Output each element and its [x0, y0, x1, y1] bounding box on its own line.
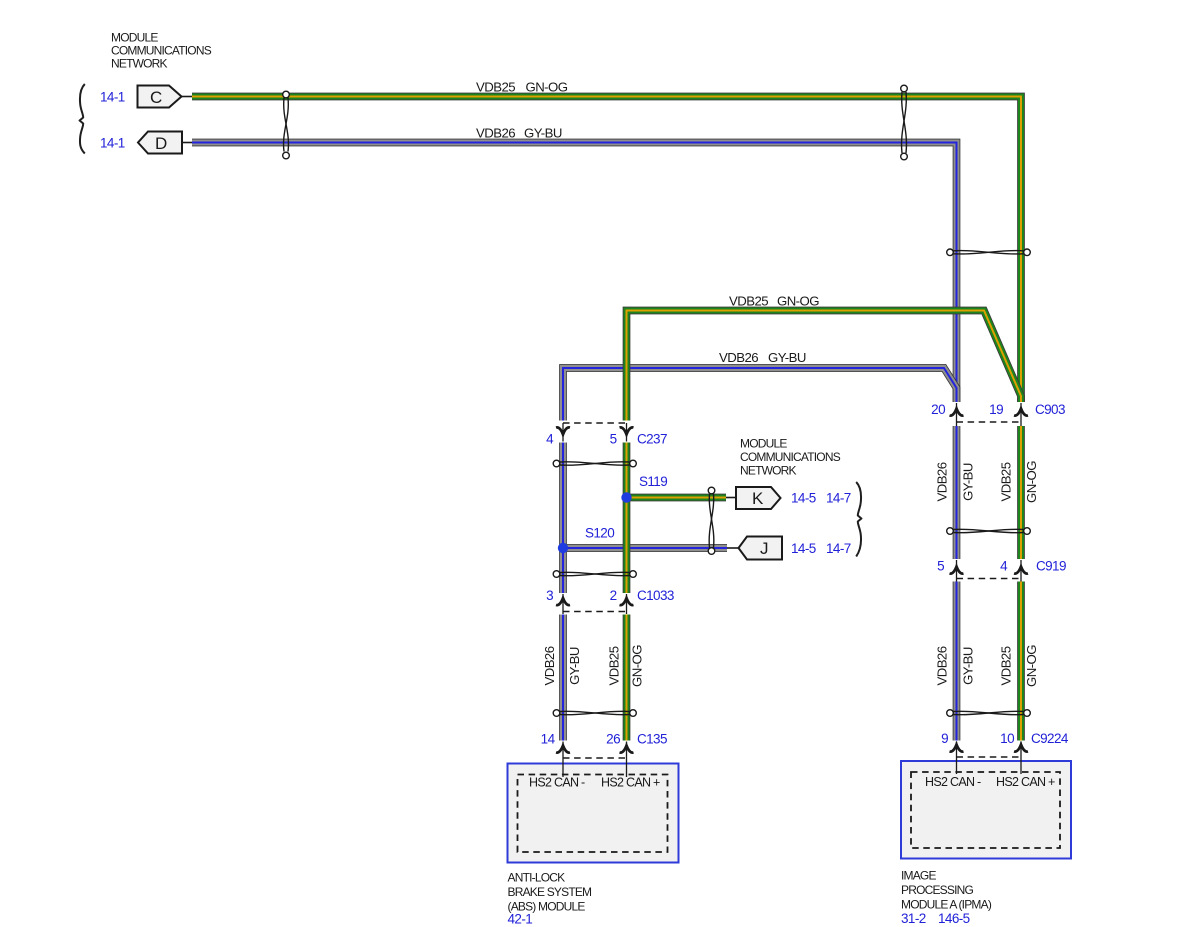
pin 4 of C919 (arrow up)	[1014, 560, 1028, 582]
svg-text:GN-OG: GN-OG	[777, 294, 819, 309]
twisted pair symbol (horizontal) right branch above C919	[947, 528, 1031, 535]
wire label VDB25 GN-OG (second run)	[729, 294, 819, 309]
svg-text:D: D	[155, 134, 167, 153]
wire label VDB26 GY-BU (second run)	[719, 350, 806, 365]
svg-text:4: 4	[1000, 559, 1008, 574]
wire VDB25 GN-OG top run: from C connector right then down to C903 pin 19	[192, 97, 1021, 403]
svg-text:BRAKE SYSTEM: BRAKE SYSTEM	[508, 885, 593, 899]
wire VDB25 GN-OG left branch: C237 pin 5 to C1033 pin 2	[623, 443, 631, 594]
connector D lead wire	[182, 142, 192, 144]
wire VDB26 GY-BU left branch: C237 pin 4 to C1033 pin 3	[559, 443, 567, 594]
svg-text:GY-BU: GY-BU	[768, 350, 806, 365]
brace left of C/D connectors	[80, 84, 85, 154]
svg-text:HS2 CAN -: HS2 CAN -	[529, 776, 585, 790]
svg-text:14: 14	[541, 732, 556, 747]
svg-text:NETWORK: NETWORK	[111, 57, 168, 71]
twisted pair symbol (vertical) next to K and J connectors	[708, 487, 715, 554]
pin 5 of C237 (arrow down)	[620, 423, 634, 442]
svg-text:VDB26: VDB26	[542, 646, 557, 685]
dashed connector line C237	[563, 422, 627, 424]
svg-text:C1033: C1033	[637, 588, 674, 603]
module name ANTI-LOCK BRAKE SYSTEM (ABS) MODULE	[508, 871, 593, 914]
connector J (to sheets 14-5 / 14-7)	[739, 537, 783, 560]
pin 20 of C903 (arrow up)	[950, 403, 964, 426]
wire VDB25 GN-OG right branch: C903 pin 19 to C919 pin 4	[1017, 426, 1025, 559]
svg-text:VDB26: VDB26	[934, 462, 949, 501]
svg-text:S119: S119	[639, 474, 667, 489]
svg-text:K: K	[752, 489, 764, 508]
svg-text:MODULE: MODULE	[111, 31, 158, 45]
svg-text:HS2 CAN +: HS2 CAN +	[996, 775, 1055, 789]
twisted pair symbol (horizontal) left branch above S119	[553, 460, 636, 467]
svg-text:C919: C919	[1036, 559, 1066, 574]
module box IMAGE PROCESSING MODULE A (IPMA)	[901, 761, 1071, 859]
svg-text:2: 2	[610, 588, 617, 603]
module box ANTI-LOCK BRAKE SYSTEM (ABS) MODULE	[508, 764, 679, 863]
svg-text:14-7: 14-7	[826, 541, 851, 556]
wire VDB25 GN-OG right branch: C919 pin 4 to C9224 pin 10	[1017, 582, 1025, 741]
wire VDB25 GN-OG left branch: C1033 pin 2 to C135 pin 26	[623, 615, 631, 741]
dashed connector line C9224	[957, 756, 1022, 758]
svg-text:10: 10	[1000, 731, 1014, 746]
svg-text:14-5: 14-5	[791, 541, 816, 556]
svg-text:VDB25: VDB25	[729, 294, 768, 309]
dashed connector line C903	[957, 421, 1022, 423]
svg-text:C135: C135	[637, 732, 667, 747]
svg-text:3: 3	[546, 588, 553, 603]
connector D (in-line to sheet 14-1)	[138, 132, 182, 154]
twisted pair symbol (horizontal) left branch below S120	[553, 571, 636, 578]
svg-text:31-2: 31-2	[901, 911, 926, 926]
svg-text:146-5: 146-5	[938, 911, 970, 926]
svg-text:C903: C903	[1035, 402, 1065, 417]
twisted pair symbol (horizontal) right branch above C9224	[947, 710, 1031, 717]
svg-text:NETWORK: NETWORK	[740, 464, 797, 478]
svg-text:42-1: 42-1	[508, 912, 533, 927]
svg-text:S120: S120	[585, 526, 614, 541]
svg-text:PROCESSING: PROCESSING	[901, 883, 973, 897]
pin 19 of C903 (arrow up)	[1014, 403, 1028, 426]
svg-text:VDB25: VDB25	[998, 462, 1013, 501]
twisted pair symbol (horizontal) left branch above C135	[553, 710, 636, 717]
svg-text:GY-BU: GY-BU	[524, 126, 562, 141]
svg-text:GN-OG: GN-OG	[1024, 461, 1039, 503]
pin 10 of C9224 (arrow up, lead into IPMA box)	[1014, 742, 1028, 775]
wire label VDB26 GY-BU (top run)	[476, 126, 562, 141]
svg-text:VDB25: VDB25	[476, 80, 515, 95]
wire VDB26 GY-BU left branch: C1033 pin 3 to C135 pin 14	[559, 615, 567, 741]
svg-text:IMAGE: IMAGE	[901, 869, 936, 883]
svg-text:J: J	[760, 539, 769, 558]
svg-text:MODULE: MODULE	[740, 437, 787, 451]
svg-text:20: 20	[931, 402, 945, 417]
dashed connector line C1033	[563, 611, 627, 613]
svg-text:GN-OG: GN-OG	[629, 645, 644, 687]
svg-text:19: 19	[989, 402, 1003, 417]
splice S120	[558, 543, 568, 553]
svg-text:COMMUNICATIONS: COMMUNICATIONS	[111, 44, 212, 58]
wire VDB25 GN-OG second run: C237 pin 5 up, right, diagonal to C903 pin 19	[627, 311, 1022, 421]
connector K lead wire	[726, 497, 736, 499]
svg-text:5: 5	[610, 432, 617, 447]
svg-text:COMMUNICATIONS: COMMUNICATIONS	[740, 450, 841, 464]
brace right of K/J connectors	[856, 482, 861, 557]
splice S119	[621, 492, 631, 502]
wire VDB26 GY-BU right branch: C903 pin 20 to C919 pin 5	[953, 426, 961, 559]
svg-text:VDB25: VDB25	[606, 646, 621, 685]
svg-text:14-7: 14-7	[826, 491, 851, 506]
title MODULE COMMUNICATIONS NETWORK (middle, near K/J)	[740, 437, 841, 478]
svg-text:26: 26	[606, 732, 620, 747]
svg-text:GN-OG: GN-OG	[1024, 645, 1039, 687]
pin 3 of C1033 (arrow up)	[556, 594, 570, 614]
pin 9 of C9224 (arrow up, lead into IPMA box)	[950, 742, 964, 775]
svg-text:GY-BU: GY-BU	[567, 647, 582, 685]
wire VDB26 GY-BU second run: C237 pin 4 up, right, diagonal to C903 pin 20	[563, 368, 957, 421]
wire label VDB25 GN-OG (top run)	[476, 80, 568, 95]
connector C (in-line to sheet 14-1)	[138, 86, 182, 108]
svg-text:ANTI-LOCK: ANTI-LOCK	[508, 871, 566, 885]
dashed connector line C135	[563, 757, 627, 759]
svg-text:9: 9	[941, 731, 948, 746]
wire VDB26 GY-BU top run: from D connector right then down to C903 pin 20	[192, 143, 957, 403]
connector C lead wire	[182, 96, 193, 98]
twisted pair symbol (vertical) on top runs right side	[901, 85, 908, 160]
wire VDB26 GY-BU right branch: C919 pin 5 to C9224 pin 9	[953, 582, 961, 741]
pin 4 of C237 (arrow down)	[556, 423, 570, 442]
wire from splice S119 to K connector	[627, 494, 727, 502]
svg-text:MODULE A (IPMA): MODULE A (IPMA)	[901, 898, 992, 912]
svg-text:GY-BU: GY-BU	[960, 463, 975, 501]
svg-text:C237: C237	[637, 432, 667, 447]
svg-text:VDB26: VDB26	[719, 350, 758, 365]
svg-text:14-5: 14-5	[791, 491, 816, 506]
pin 14 of C135 (arrow up, lead into ABS box)	[556, 742, 570, 778]
svg-text:C: C	[150, 88, 162, 107]
pin 26 of C135 (arrow up, lead into ABS box)	[620, 742, 634, 778]
dashed connector line C919	[957, 578, 1022, 580]
svg-text:4: 4	[546, 432, 554, 447]
svg-text:C9224: C9224	[1031, 731, 1069, 746]
pin 2 of C1033 (arrow up)	[620, 594, 634, 614]
connector J lead wire	[727, 547, 739, 549]
svg-text:GN-OG: GN-OG	[526, 80, 568, 95]
svg-text:VDB26: VDB26	[934, 646, 949, 685]
twisted pair symbol (vertical) on top runs near C/D connectors	[283, 91, 290, 159]
module name IMAGE PROCESSING MODULE A (IPMA)	[901, 869, 992, 912]
connector K (to sheets 14-5 / 14-7)	[736, 487, 781, 509]
svg-text:5: 5	[937, 559, 944, 574]
wire from splice S120 to J connector	[563, 544, 727, 552]
svg-text:VDB26: VDB26	[476, 126, 515, 141]
svg-text:HS2 CAN -: HS2 CAN -	[925, 775, 981, 789]
title MODULE COMMUNICATIONS NETWORK (top left)	[111, 31, 212, 71]
pin 5 of C919 (arrow up)	[950, 560, 964, 582]
svg-text:HS2 CAN +: HS2 CAN +	[601, 776, 660, 790]
svg-text:VDB25: VDB25	[998, 646, 1013, 685]
twisted pair symbol (horizontal) right verticals above C903	[947, 249, 1031, 256]
svg-text:GY-BU: GY-BU	[960, 647, 975, 685]
svg-text:14-1: 14-1	[100, 136, 125, 151]
svg-text:14-1: 14-1	[100, 90, 125, 105]
